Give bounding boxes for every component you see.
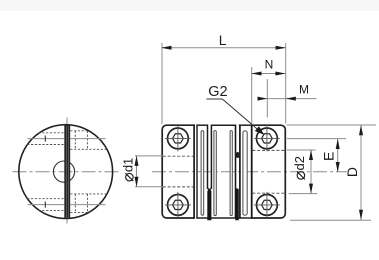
- hidden vertical top-right b: [87, 131, 89, 150]
- L arrow left: [161, 46, 171, 50]
- right hub bore hidden top: [252, 149, 284, 151]
- hidden line top-right upper: [70, 130, 89, 132]
- E extension top (screw axis): [287, 138, 346, 140]
- screw axis line top-right: [70, 138, 105, 140]
- hidden vertical bottom-right b: [87, 194, 89, 213]
- hidden vertical top-right a: [74, 131, 76, 150]
- dimension phi d2 line: [310, 150, 312, 194]
- slit band left edge: [196, 125, 198, 219]
- D extension top: [287, 124, 377, 126]
- M arrow at right face: [286, 97, 296, 101]
- dimension L line: [162, 47, 286, 49]
- screw bottom-left: [165, 192, 191, 218]
- slit pair1 dark bar: [207, 189, 211, 220]
- right hub bore hidden bottom: [252, 192, 284, 194]
- dimension M line: [258, 98, 317, 100]
- N arrow right: [275, 72, 285, 76]
- phi d1 extension bottom: [135, 186, 163, 188]
- slit pair1 right line: [210, 125, 212, 190]
- screw axis line bottom-left: [28, 204, 65, 206]
- G2 leader diagonal: [222, 99, 258, 130]
- outer circle: [19, 125, 113, 219]
- band top edge seg3: [239, 124, 252, 126]
- svg-text:⌀d1: ⌀d1: [120, 158, 138, 182]
- slit pair1 closed end: [208, 187, 212, 189]
- band top edge seg1: [196, 124, 208, 126]
- slit pair2 right line: [239, 125, 241, 219]
- band top edge seg2: [211, 124, 235, 126]
- hidden vertical bottom-right a: [74, 194, 76, 213]
- svg-text:⌀d2: ⌀d2: [291, 156, 309, 180]
- band bottom edge: [196, 217, 251, 219]
- E arrow down: [336, 162, 340, 172]
- screw bottom-right: [254, 192, 280, 218]
- side view centerline: [152, 171, 347, 173]
- hidden line top-left lower: [27, 144, 64, 146]
- screw axis line top-left: [28, 138, 65, 140]
- central slit bar: [64, 125, 70, 219]
- dimension N line: [252, 73, 286, 75]
- slit oval A: [201, 131, 204, 216]
- phi d2 extension bottom: [289, 193, 318, 195]
- hidden line top-left upper: [39, 132, 65, 134]
- slit pair2 dark bar: [235, 188, 239, 220]
- dimension D line: [360, 125, 362, 220]
- right hub outline: [251, 125, 285, 218]
- svg-text:N: N: [265, 58, 274, 72]
- screw top-left: [165, 125, 191, 151]
- dimension E line: [337, 139, 339, 172]
- left hub bore hidden top: [163, 155, 194, 157]
- vertical centerline: [66, 118, 68, 227]
- horizontal centerline: [13, 171, 119, 173]
- svg-text:G2: G2: [208, 84, 227, 100]
- slit pair1 left line: [207, 125, 209, 190]
- G2 leader shelf: [206, 98, 222, 100]
- slit oval D: [243, 131, 247, 215]
- G2 leader arrowhead: [255, 126, 264, 135]
- hidden line bottom-left lower: [39, 209, 65, 211]
- slit oval C: [230, 131, 232, 216]
- screw top-right: [254, 125, 280, 151]
- slit pair2 closed end blob: [235, 152, 240, 158]
- D extension bottom: [290, 219, 371, 221]
- slit pair2 left line: [235, 125, 237, 219]
- svg-text:D: D: [344, 167, 360, 177]
- N arrow left: [251, 72, 261, 76]
- right face extension: [285, 43, 287, 124]
- phi d2 extension top: [287, 149, 316, 151]
- slit oval B: [214, 131, 216, 216]
- E arrow up: [336, 139, 340, 149]
- svg-text:M: M: [299, 83, 309, 97]
- thread end tick top-left: [44, 136, 46, 142]
- D arrow up: [359, 125, 363, 135]
- N extension left: [251, 67, 253, 124]
- right hub left edge: [251, 125, 253, 219]
- svg-text:L: L: [219, 32, 227, 48]
- hidden line bottom-left upper: [27, 198, 64, 200]
- phi d1 arrow up: [135, 156, 139, 166]
- hidden line bottom-right lower: [70, 211, 89, 213]
- left hub outline: [162, 125, 195, 218]
- phi d1 arrow down: [135, 177, 139, 187]
- left hub right edge: [193, 125, 195, 219]
- thread end tick bottom-left: [44, 202, 46, 208]
- left hub bore hidden bottom: [163, 186, 194, 188]
- hidden line top-right lower: [70, 148, 107, 150]
- dimension phi d1 line: [136, 156, 138, 187]
- phi d2 arrow up: [309, 150, 313, 160]
- L arrow right: [276, 46, 286, 50]
- svg-text:E: E: [320, 152, 336, 161]
- hidden line bottom-right upper: [70, 193, 107, 195]
- phi d2 arrow down: [309, 184, 313, 194]
- D arrow down: [359, 210, 363, 220]
- bore circle: [53, 161, 74, 182]
- phi d1 extension top: [135, 155, 163, 157]
- M arrow at screw axis: [258, 97, 268, 101]
- screw axis line bottom-right: [70, 204, 105, 206]
- screw axis extension: [266, 79, 268, 118]
- L extension left: [161, 43, 163, 124]
